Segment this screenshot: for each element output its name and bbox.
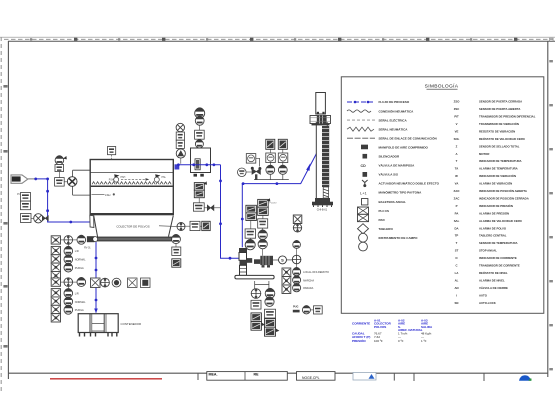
- svg-text:LOCAL-OFF-REMOTO: LOCAL-OFF-REMOTO: [303, 271, 329, 274]
- svg-text:TABLERO CENTRAL: TABLERO CENTRAL: [479, 234, 507, 238]
- svg-text:P: P: [456, 204, 458, 208]
- svg-text:NORMAL: NORMAL: [75, 259, 86, 262]
- svg-text:LSH: LSH: [105, 193, 110, 197]
- svg-text:PIT: PIT: [454, 115, 459, 119]
- svg-text:A: A: [455, 152, 457, 156]
- svg-text:PA: PA: [455, 211, 459, 215]
- svg-text:PARADA: PARADA: [303, 287, 313, 290]
- svg-text:ACTUADOR NEUMÁTICO DOBLE EFECT: ACTUADOR NEUMÁTICO DOBLE EFECTO: [379, 181, 440, 186]
- svg-text:VÁLVULA S/S: VÁLVULA S/S: [379, 172, 399, 177]
- svg-text:MANIFOLD DE AIRE COMPRIMIDO: MANIFOLD DE AIRE COMPRIMIDO: [379, 145, 429, 149]
- svg-text:SENSOR DE SELLADO TOTAL: SENSOR DE SELLADO TOTAL: [479, 144, 520, 148]
- svg-text:PSL: PSL: [162, 177, 167, 179]
- svg-text:Z: Z: [456, 144, 458, 148]
- svg-text:ALARMA DE VIBRACIÓN: ALARMA DE VIBRACIÓN: [479, 181, 512, 186]
- svg-text:C: C: [455, 264, 457, 268]
- svg-text:TRANSMISOR DE CORRIENTE: TRANSMISOR DE CORRIENTE: [479, 264, 520, 268]
- svg-text:1 ºF: 1 ºF: [421, 339, 427, 343]
- svg-text:MANÓMETRO TIPO PAYTONA: MANÓMETRO TIPO PAYTONA: [379, 190, 423, 195]
- svg-text:T: T: [456, 159, 458, 163]
- svg-text:NORMAL: NORMAL: [75, 301, 86, 304]
- svg-text:ALARMA DE NIVEL: ALARMA DE NIVEL: [479, 278, 505, 282]
- svg-text:SALIDA: SALIDA: [421, 325, 433, 329]
- svg-text:DA: DA: [454, 226, 458, 230]
- svg-text:SENSOR DE PUERTA CERRADA: SENSOR DE PUERTA CERRADA: [479, 100, 522, 104]
- svg-text:TRANSMISOR DE VIBRACIÓN: TRANSMISOR DE VIBRACIÓN: [479, 121, 519, 126]
- svg-text:SN: SN: [455, 301, 459, 305]
- svg-text:S: S: [281, 258, 284, 263]
- svg-text:CONTENEDOR: CONTENEDOR: [121, 322, 142, 326]
- svg-text:PUG: PUG: [293, 306, 298, 309]
- svg-text:AUTO-LOCK: AUTO-LOCK: [479, 301, 496, 305]
- svg-text:AN: AN: [454, 286, 458, 290]
- svg-text:SENSOR DE PUERTA ABIERTA: SENSOR DE PUERTA ABIERTA: [479, 107, 520, 111]
- svg-text:TABLERO: TABLERO: [379, 227, 394, 231]
- svg-text:ZSC: ZSC: [454, 107, 460, 111]
- svg-text:V: V: [456, 122, 458, 126]
- svg-text:ST: ST: [455, 249, 459, 253]
- svg-text:TRANSMISOR DE PRESIÓN DIFERENC: TRANSMISOR DE PRESIÓN DIFERENCIAL: [479, 114, 536, 119]
- svg-text:AL: AL: [455, 278, 459, 282]
- svg-text:REÓSTATO DE VIBRACIÓN: REÓSTATO DE VIBRACIÓN: [479, 128, 515, 133]
- svg-text:PLC I/S: PLC I/S: [379, 209, 390, 213]
- svg-text:L/R: L/R: [75, 292, 79, 295]
- svg-text:INDICADOR DE PRESIÓN: INDICADOR DE PRESIÓN: [479, 203, 513, 208]
- svg-text:ALARMA DE TEMPERATURA: ALARMA DE TEMPERATURA: [479, 167, 518, 171]
- svg-text:POLVOS: POLVOS: [374, 325, 386, 329]
- svg-text:T: T: [456, 241, 458, 245]
- svg-text:TP: TP: [455, 234, 459, 238]
- svg-text:PSHL: PSHL: [109, 180, 116, 182]
- svg-text:VÁLVULA DE MARIPOSA: VÁLVULA DE MARIPOSA: [379, 163, 416, 168]
- svg-text:ZAC: ZAC: [454, 196, 460, 200]
- svg-text:INDICADOR DE POSICIÓN CERRADA: INDICADOR DE POSICIÓN CERRADA: [479, 195, 529, 200]
- svg-text:0 ºF: 0 ºF: [398, 339, 404, 343]
- svg-text:COLECTOR DE POLVOS: COLECTOR DE POLVOS: [116, 225, 149, 229]
- svg-text:SEÑAL DE ENLACE DE COMUNICACIÓ: SEÑAL DE ENLACE DE COMUNICACIÓN: [379, 135, 437, 140]
- svg-text:SOL: SOL: [454, 137, 460, 141]
- svg-text:PRESIÓN: PRESIÓN: [352, 338, 366, 343]
- svg-text:BALETERA ANUAL: BALETERA ANUAL: [379, 200, 407, 204]
- svg-text:SIMBOLOGÍA: SIMBOLOGÍA: [425, 83, 459, 90]
- svg-text:PURGA: PURGA: [75, 309, 84, 312]
- svg-text:INDICADOR DE POSICIÓN ABIERTA: INDICADOR DE POSICIÓN ABIERTA: [479, 188, 527, 193]
- svg-text:CD: CD: [361, 164, 367, 168]
- svg-text:TA: TA: [455, 167, 459, 171]
- svg-text:L+1: L+1: [360, 190, 368, 195]
- svg-text:PURGA: PURGA: [75, 267, 84, 270]
- svg-text:PAD: PAD: [379, 218, 386, 222]
- svg-text:CHI-B-01: CHI-B-01: [317, 209, 328, 212]
- svg-text:CONEXIÓN NEUMÁTICA: CONEXIÓN NEUMÁTICA: [379, 108, 415, 113]
- svg-text:NOGE.CPL: NOGE.CPL: [302, 376, 320, 380]
- svg-text:ALARMA DE VELOCIDAD CERO: ALARMA DE VELOCIDAD CERO: [479, 219, 523, 223]
- svg-text:CORRIENTE: CORRIENTE: [352, 322, 370, 326]
- svg-text:SEÑAL ELÉCTRICA: SEÑAL ELÉCTRICA: [379, 117, 408, 122]
- svg-text:FLUJO: FLUJO: [270, 202, 277, 204]
- svg-text:SEÑAL NEUMÁTICA: SEÑAL NEUMÁTICA: [379, 126, 409, 131]
- svg-text:LA: LA: [455, 271, 459, 275]
- svg-text:INDICADOR DE CORRIENTE: INDICADOR DE CORRIENTE: [479, 256, 517, 260]
- svg-text:INSTRUMENTO DE CAMPO: INSTRUMENTO DE CAMPO: [379, 236, 419, 240]
- svg-text:INDICADOR DE TEMPERATURA: INDICADOR DE TEMPERATURA: [479, 159, 522, 163]
- svg-text:SILENCIADOR: SILENCIADOR: [379, 155, 401, 159]
- svg-text:REÓSTATO DE VELOCIDAD CERO: REÓSTATO DE VELOCIDAD CERO: [479, 136, 526, 141]
- svg-text:MOTOR: MOTOR: [479, 152, 489, 156]
- svg-text:PSH: PSH: [121, 177, 126, 179]
- svg-text:W: W: [455, 174, 458, 178]
- svg-text:VE: VE: [455, 129, 459, 133]
- svg-text:STOP ANUAL: STOP ANUAL: [479, 249, 497, 253]
- svg-text:ALARMA DE POLVO: ALARMA DE POLVO: [479, 226, 507, 230]
- svg-text:SENSOR DE TEMPERATURA: SENSOR DE TEMPERATURA: [479, 241, 518, 245]
- svg-text:ZAO: ZAO: [454, 189, 461, 193]
- svg-text:FLUJO DE PROCESO: FLUJO DE PROCESO: [379, 100, 410, 104]
- svg-text:VA: VA: [455, 182, 459, 186]
- svg-text:MEA.: MEA.: [209, 373, 218, 377]
- svg-text:100 ºF: 100 ºF: [374, 339, 383, 343]
- svg-text:AUTO: AUTO: [479, 293, 488, 297]
- svg-text:MARCHA: MARCHA: [303, 279, 314, 282]
- svg-text:SAL: SAL: [454, 219, 460, 223]
- svg-text:ALARMA DE PRESIÓN: ALARMA DE PRESIÓN: [479, 210, 509, 215]
- svg-text:RV-01: RV-01: [84, 247, 91, 250]
- svg-text:INDICADOR DE VIBRACIÓN: INDICADOR DE VIBRACIÓN: [479, 173, 516, 178]
- svg-text:L/R: L/R: [75, 250, 79, 253]
- svg-text:REÓSTATO DE NIVEL: REÓSTATO DE NIVEL: [479, 270, 508, 275]
- svg-text:RE: RE: [254, 373, 260, 377]
- svg-text:VÁLVULA DE CIERRE: VÁLVULA DE CIERRE: [479, 285, 508, 290]
- svg-text:ZSO: ZSO: [454, 100, 461, 104]
